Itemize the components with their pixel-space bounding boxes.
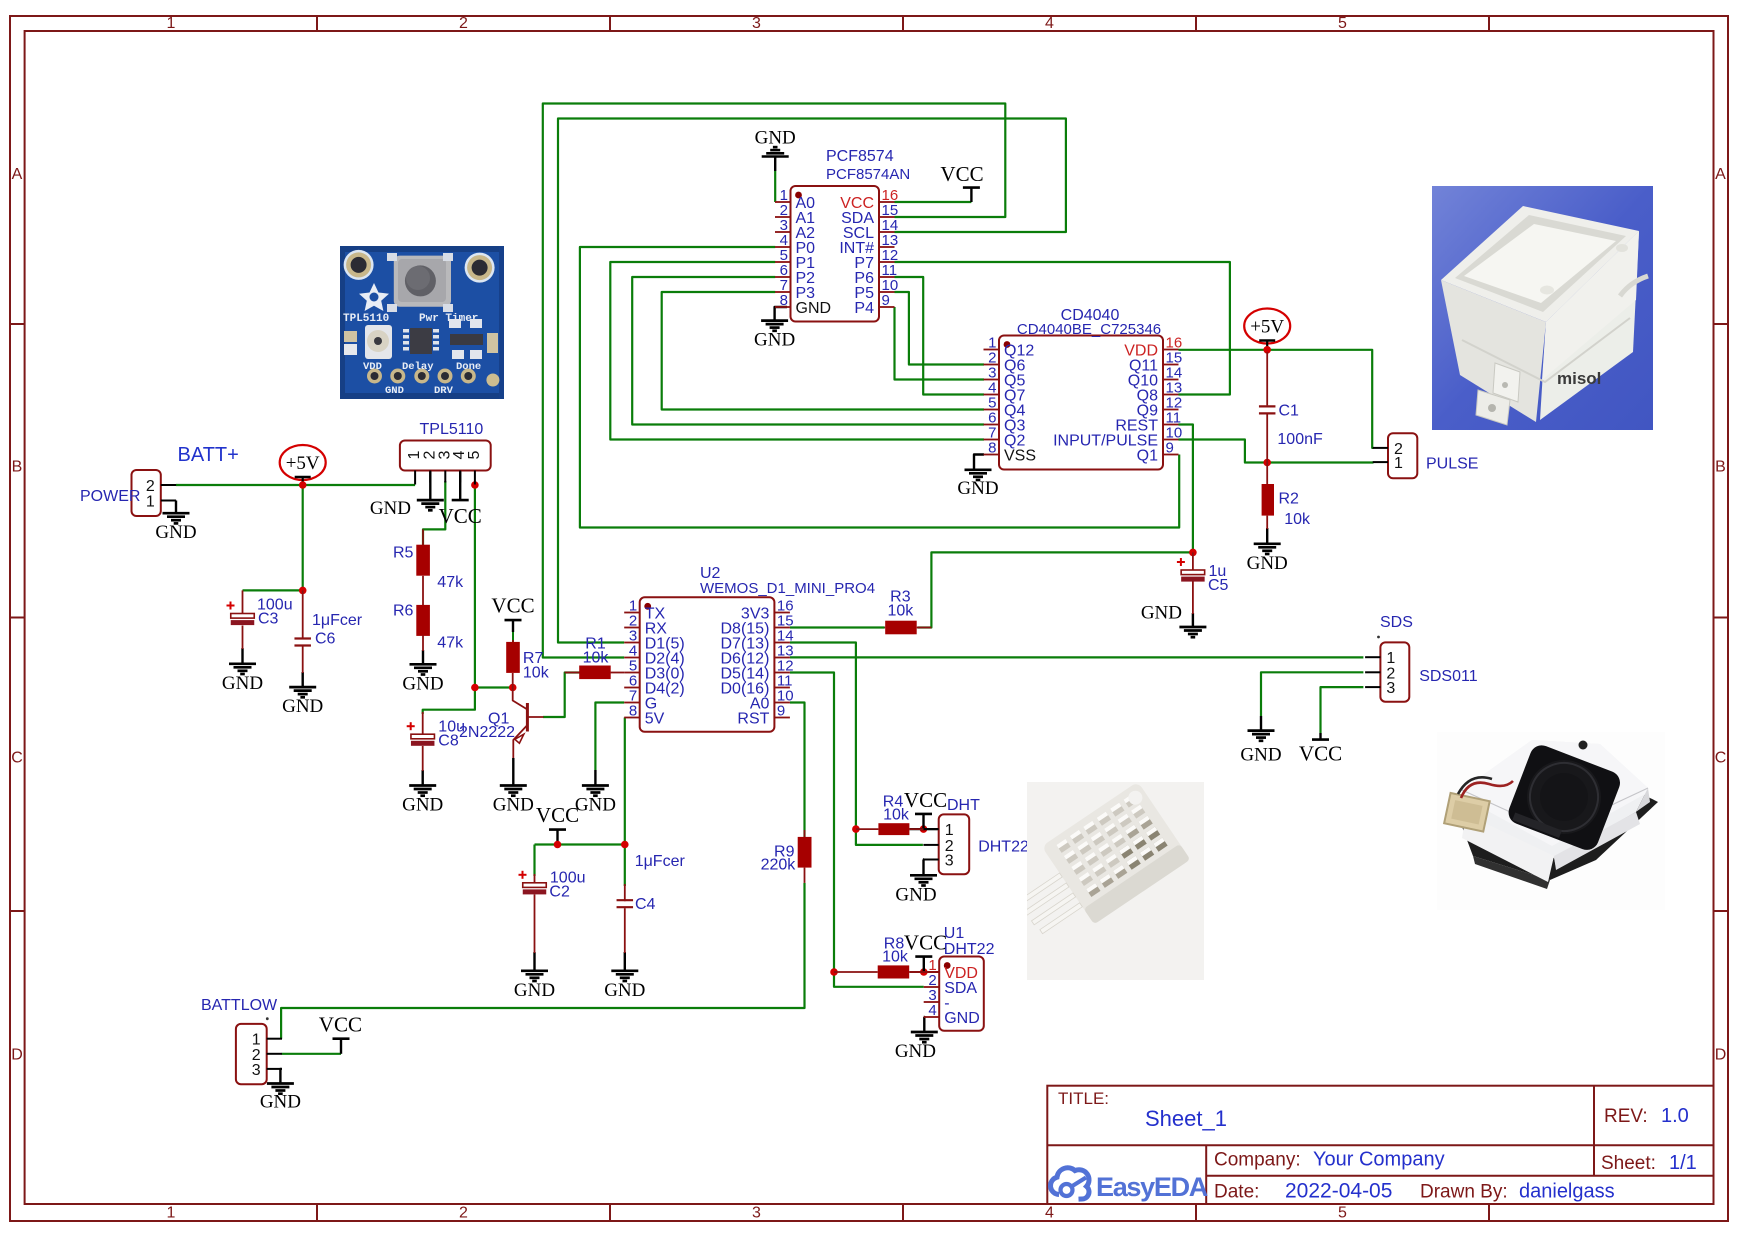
svg-text:GND: GND [402, 795, 443, 816]
resistor R3 10k [885, 589, 932, 635]
wire U2 pin10 A0 to R9 [790, 703, 805, 839]
svg-text:GND: GND [1141, 603, 1182, 624]
svg-text:C4: C4 [635, 896, 656, 913]
wire net P5 to CD4040 pin2 Q6 [895, 292, 985, 365]
svg-text:4: 4 [928, 1002, 936, 1019]
capacitor C5 1u [1177, 552, 1229, 614]
svg-text:C1: C1 [1279, 403, 1300, 420]
svg-text:SDS: SDS [1380, 614, 1413, 631]
junction dot R8 right / U1 pin1 [920, 968, 928, 976]
svg-text:2: 2 [146, 478, 155, 495]
wire SDS pin2 to GND [1261, 672, 1363, 716]
photo SDS011 sensor [1437, 732, 1665, 910]
junction dot TPL pin5 rail at R7 [471, 684, 479, 692]
svg-text:GND: GND [575, 795, 616, 816]
svg-text:GND: GND [385, 385, 404, 397]
svg-text:10k: 10k [523, 665, 550, 682]
resistor R8 10k [834, 936, 909, 979]
svg-text:POWER: POWER [80, 488, 140, 505]
VCC flag SDS pin3 (inverted) [1319, 733, 1321, 740]
junction dot R7 bottom [509, 684, 517, 692]
VCC flag near PCF8574 pin16 [970, 188, 972, 202]
resistor R2 10k [1262, 463, 1311, 530]
svg-text:8: 8 [988, 440, 996, 457]
svg-text:GND: GND [514, 980, 555, 1001]
svg-text:47k: 47k [437, 635, 464, 652]
transistor Q1 2N2222 [459, 688, 544, 759]
svg-text:GND: GND [796, 300, 832, 317]
svg-text:misol: misol [1557, 369, 1601, 388]
svg-text:2022-04-05: 2022-04-05 [1285, 1180, 1392, 1203]
svg-text:GND: GND [944, 1010, 980, 1027]
wire net SDA: PCF8574 pin15 to U2 pin4 D2(4) [543, 104, 1006, 658]
photo TPL5110 breakout board [340, 246, 504, 399]
ground flag under R2 [1266, 528, 1268, 544]
wire net P3 to CD4040 pin5 Q4 [662, 292, 984, 410]
svg-text:100nF: 100nF [1277, 431, 1323, 448]
svg-text:5: 5 [1338, 15, 1347, 32]
+5V flag right (CD4040 VDD) [1244, 309, 1290, 344]
wire net SCL: PCF8574 pin14 to U2 pin3 D1(5) [558, 119, 1066, 643]
svg-text:C8: C8 [438, 733, 459, 750]
svg-text:Q1: Q1 [1137, 447, 1158, 464]
svg-text:1μFcer: 1μFcer [635, 853, 686, 870]
svg-text:D: D [1715, 1047, 1727, 1064]
wire SDS pin3 to VCC [1321, 687, 1364, 733]
wire net P2 to CD4040 pin6 Q3 [632, 277, 984, 425]
svg-text:10k: 10k [1284, 511, 1311, 528]
connector TPL5110 [400, 421, 491, 485]
svg-text:GND: GND [155, 522, 196, 543]
svg-text:1: 1 [1394, 455, 1403, 472]
svg-text:DHT: DHT [947, 797, 980, 814]
junction dot VCC rail [554, 841, 562, 849]
svg-text:C3: C3 [258, 611, 279, 628]
wire C5 junction to R3 right lead [918, 552, 1193, 627]
wire junction down to C4 [624, 845, 626, 887]
junction dot C3/C6 node [299, 587, 307, 595]
VCC flag above DHT pin1 [922, 814, 924, 829]
junction dot TPL pin5 [471, 481, 479, 489]
svg-text:1: 1 [167, 15, 176, 32]
svg-text:VCC: VCC [491, 594, 534, 618]
svg-text:C6: C6 [315, 631, 336, 648]
capacitor C4 1uFcer [617, 853, 686, 953]
capacitor C1 100nF [1259, 352, 1323, 463]
svg-text:VSS: VSS [1004, 447, 1036, 464]
svg-text:TPL5110: TPL5110 [343, 313, 389, 325]
svg-text:5: 5 [1338, 1205, 1347, 1222]
svg-text:2N2222: 2N2222 [459, 724, 515, 741]
svg-text:220k: 220k [761, 857, 797, 874]
ground flag SDS pin2 [1260, 716, 1262, 731]
svg-text:GND: GND [754, 330, 795, 351]
svg-text:GND: GND [260, 1092, 301, 1113]
svg-text:VCC: VCC [904, 931, 947, 955]
junction dot C1/R2/PULSE node [1263, 459, 1271, 467]
svg-text:SDS011: SDS011 [1419, 668, 1478, 685]
svg-text:A: A [1715, 166, 1726, 183]
wire Q1 base to R1 left [543, 673, 580, 718]
svg-text:GND: GND [493, 795, 534, 816]
svg-text:REV:: REV: [1604, 1106, 1648, 1127]
svg-text:Company:: Company: [1214, 1150, 1301, 1171]
svg-text:47k: 47k [437, 574, 464, 591]
svg-text:EasyEDA: EasyEDA [1096, 1172, 1208, 1202]
wire BATT+ POWER pin2 to +5V junction [176, 484, 303, 486]
wire junction down-left to C8 [423, 688, 475, 715]
svg-text:9: 9 [1166, 440, 1174, 457]
svg-text:GND: GND [282, 696, 323, 717]
wire TPL5110 pin3 to R5 [423, 481, 445, 546]
wire CD4040 pin11 REST to C5 junction [1179, 425, 1193, 553]
svg-text:DHT22: DHT22 [978, 839, 1029, 856]
wire VCC junction rail to C2 [535, 843, 625, 845]
svg-text:5: 5 [466, 450, 483, 459]
svg-text:danielgass: danielgass [1519, 1181, 1615, 1203]
wire junction to C3 [243, 589, 303, 591]
svg-text:Sheet_1: Sheet_1 [1145, 1106, 1227, 1131]
svg-text:10k: 10k [888, 603, 915, 620]
wire net P6 to CD4040 pin4 Q7 [895, 277, 985, 395]
wire net P7 to CD4040 pin13 Q8 [895, 262, 1230, 395]
svg-text:9: 9 [777, 703, 785, 720]
svg-text:BATT+: BATT+ [178, 444, 239, 466]
VCC flag TPL5110 pin4 (inverted) [459, 471, 461, 501]
svg-text:Pwr Timer: Pwr Timer [419, 313, 478, 325]
svg-text:RST: RST [737, 710, 769, 727]
svg-text:DHT22: DHT22 [944, 941, 995, 958]
resistor R4 10k [856, 794, 924, 836]
svg-text:GND: GND [895, 884, 936, 905]
svg-text:Done: Done [456, 361, 481, 373]
ground flag PCF8574 pin8 [775, 307, 787, 321]
EasyEDA logo [1050, 1168, 1207, 1202]
svg-text:3: 3 [752, 1205, 761, 1222]
svg-text:C: C [11, 750, 23, 767]
connector PULSE [1373, 433, 1479, 478]
svg-text:Date:: Date: [1214, 1182, 1259, 1203]
svg-text:PCF8574AN: PCF8574AN [826, 166, 910, 183]
wire R8 junction to U1 pin2 SDA [834, 972, 924, 987]
svg-text:1.0: 1.0 [1661, 1105, 1689, 1127]
svg-text:1: 1 [146, 494, 155, 511]
svg-text:8: 8 [629, 703, 637, 720]
junction dot +5V/VDD [1263, 346, 1271, 354]
svg-text:2: 2 [459, 15, 468, 32]
svg-text:Your Company: Your Company [1313, 1149, 1445, 1171]
svg-text:3: 3 [1386, 680, 1395, 697]
connector POWER [80, 470, 176, 516]
ground flag BATTLOW pin3 [280, 1069, 281, 1084]
wire CD4040 pin10 INPUT/PULSE to PULSE pin1 / C1 / R2 junction [1179, 440, 1374, 463]
wire PCF8574 pin1 A0 to GND flag [774, 171, 776, 202]
VCC flag BATTLOW pin2 [340, 1039, 342, 1054]
svg-text:Drawn By:: Drawn By: [1420, 1182, 1508, 1203]
wire R3 left lead to U2 pin15 D8(15) [790, 626, 885, 628]
capacitor C2 100u [519, 870, 586, 954]
svg-text:1: 1 [945, 822, 954, 839]
svg-text:C2: C2 [549, 884, 570, 901]
svg-text:VDD: VDD [363, 361, 382, 373]
svg-text:GND: GND [1247, 553, 1288, 574]
ground flag U1 pin4 [923, 1017, 926, 1032]
svg-text:VCC: VCC [940, 162, 983, 186]
junction dot BATT+/TPL [299, 481, 307, 489]
ground flag above PCF8574 pin1 [774, 157, 776, 172]
svg-text:GND: GND [957, 478, 998, 499]
svg-text:1μFcer: 1μFcer [312, 612, 363, 629]
connector DHT (DHT22) [923, 797, 1029, 874]
svg-text:1/1: 1/1 [1669, 1152, 1697, 1174]
svg-text:PCF8574: PCF8574 [826, 148, 894, 165]
ground flag TPL5110 pin2 [429, 471, 431, 501]
svg-text:GND: GND [1240, 745, 1281, 766]
svg-text:TITLE:: TITLE: [1058, 1089, 1109, 1108]
IC CD4040 (CD4040BE_C725346) [984, 307, 1183, 470]
svg-text:GND: GND [755, 128, 796, 149]
svg-text:10k: 10k [882, 949, 909, 966]
capacitor C6 1uFcer [294, 590, 362, 673]
svg-text:+5V: +5V [286, 453, 320, 474]
wire +5V to PULSE pin2 [1267, 350, 1373, 448]
wire +5V rail down to C3/C6 junction [302, 485, 304, 590]
svg-text:R5: R5 [393, 545, 414, 562]
ground flag CD4040 pin8 VSS [974, 455, 984, 470]
capacitor C8 10u [407, 712, 465, 771]
resistor R6 47k [393, 603, 464, 652]
connector SDS (SDS011) [1365, 614, 1478, 702]
ground flag under C4 [624, 952, 626, 971]
wire net P1 to CD4040 pin7 Q2 [610, 262, 984, 440]
svg-text:3: 3 [945, 853, 954, 870]
svg-text:10k: 10k [583, 650, 610, 667]
svg-text:4: 4 [1045, 15, 1054, 32]
junction dot REST/C5/R3 node [1189, 549, 1197, 557]
wire net P4 to CD4040 pin3 Q5 [895, 307, 985, 380]
svg-text:U1: U1 [944, 925, 965, 942]
resistor R1 10k [565, 636, 625, 680]
svg-text:R6: R6 [393, 603, 414, 620]
svg-text:VCC: VCC [536, 803, 579, 827]
ground flag under C6 [302, 672, 304, 687]
wire CD4040 pin16 VDD to +5V [1179, 349, 1268, 351]
ground flag under R6 [422, 650, 424, 664]
+5V flag left (BATT+) [280, 445, 326, 480]
wire junction to R7 bottom junction [475, 686, 513, 688]
wire U2 pin14 D7(13) down to R4/DHT junction [790, 643, 856, 830]
wire R7 top to VCC flag [512, 632, 514, 643]
VCC flag above U1 pin1 [923, 957, 925, 972]
svg-text:CD4040BE_C725346: CD4040BE_C725346 [1017, 321, 1161, 338]
photo misol rain gauge [1432, 186, 1653, 430]
wire U2 pin13 D6(12) to SDS pin1 [790, 656, 1364, 658]
junction dot R8 left [830, 968, 838, 976]
svg-text:10k: 10k [883, 807, 910, 824]
svg-text:P4: P4 [854, 300, 874, 317]
svg-text:C5: C5 [1208, 577, 1229, 594]
svg-text:1: 1 [167, 1205, 176, 1222]
svg-text:GND: GND [222, 673, 263, 694]
junction dot R4 right / DHT pin1 [920, 825, 928, 833]
resistor R7 10k [506, 640, 549, 688]
svg-text:2: 2 [459, 1205, 468, 1222]
wire net P0 to CD4040 pin9 Q1 [580, 247, 1179, 528]
svg-text:BATTLOW: BATTLOW [201, 997, 278, 1014]
svg-text:C: C [1715, 750, 1727, 767]
svg-text:B: B [1715, 459, 1726, 476]
svg-text:GND: GND [402, 673, 443, 694]
svg-text:3: 3 [752, 15, 761, 32]
svg-text:GND: GND [895, 1041, 936, 1062]
wire U2 pin7 G to GND [595, 703, 624, 771]
svg-text:DRV: DRV [434, 385, 454, 397]
svg-text:VCC: VCC [1299, 742, 1342, 766]
ground flag under Q1 emitter [512, 758, 514, 786]
junction dot 5V/C4 node [621, 841, 629, 849]
resistor R9 220k [761, 830, 812, 883]
wire +5V junction to TPL5110 pin1 [303, 484, 415, 486]
ground flag U2 pin7 G [594, 770, 596, 786]
wire R9 bottom to BATTLOW pin1 [281, 883, 804, 1039]
svg-text:Delay: Delay [402, 361, 434, 373]
svg-text:A: A [12, 166, 23, 183]
VCC flag C2/C4 rail [556, 830, 558, 845]
svg-text:+5V: +5V [1250, 317, 1284, 338]
capacitor C3 100u [227, 590, 293, 649]
svg-text:5V: 5V [645, 710, 665, 727]
IC U1 DHT22 [924, 925, 995, 1031]
connector BATTLOW [201, 997, 282, 1084]
resistor R5 47k [393, 529, 464, 605]
svg-text:Sheet:: Sheet: [1601, 1153, 1656, 1174]
svg-text:PULSE: PULSE [1426, 456, 1478, 473]
wire R4 junction to DHT pin2 [856, 829, 923, 845]
svg-text:8: 8 [780, 292, 788, 309]
svg-text:D: D [11, 1047, 23, 1064]
ground flag under C5 [1192, 613, 1194, 627]
wire PCF8574 pin16 VCC to VCC flag [895, 201, 972, 203]
VCC flag above R7 [512, 620, 514, 632]
svg-text:B: B [12, 459, 23, 476]
svg-text:VCC: VCC [439, 504, 482, 528]
ground flag DHT pin3 [922, 860, 925, 876]
IC PCF8574 (PCF8574AN) [775, 148, 910, 322]
svg-text:VCC: VCC [904, 788, 947, 812]
wire TPL5110 pin5 down to R7/Q1 junction [474, 485, 476, 688]
svg-text:3: 3 [252, 1062, 261, 1079]
svg-text:GND: GND [604, 980, 645, 1001]
title block [1047, 1086, 1713, 1204]
svg-text:TPL5110: TPL5110 [420, 421, 484, 438]
svg-text:9: 9 [882, 292, 890, 309]
wire U2 pin12 D5(14) down to R8/U1 junction [790, 673, 834, 973]
ground flag POWER pin1 [175, 501, 177, 514]
ground flag under C8 [422, 770, 424, 786]
svg-text:4: 4 [1045, 1205, 1054, 1222]
svg-text:VCC: VCC [319, 1013, 362, 1037]
wire BATTLOW pin2 to VCC flag [282, 1053, 341, 1055]
wire U2 pin8 5V down to VCC/C2/C4 junction [624, 718, 626, 845]
photo DHT22 sensor [997, 782, 1204, 980]
svg-text:WEMOS_D1_MINI_PRO4: WEMOS_D1_MINI_PRO4 [700, 580, 875, 597]
svg-text:GND: GND [370, 498, 411, 519]
svg-text:R2: R2 [1279, 491, 1300, 508]
ground flag under C2 [533, 952, 535, 971]
ground flag under C3 [241, 648, 243, 664]
IC U2 WEMOS_D1_MINI_PRO4 [624, 565, 875, 732]
junction dot R4 left [852, 825, 860, 833]
